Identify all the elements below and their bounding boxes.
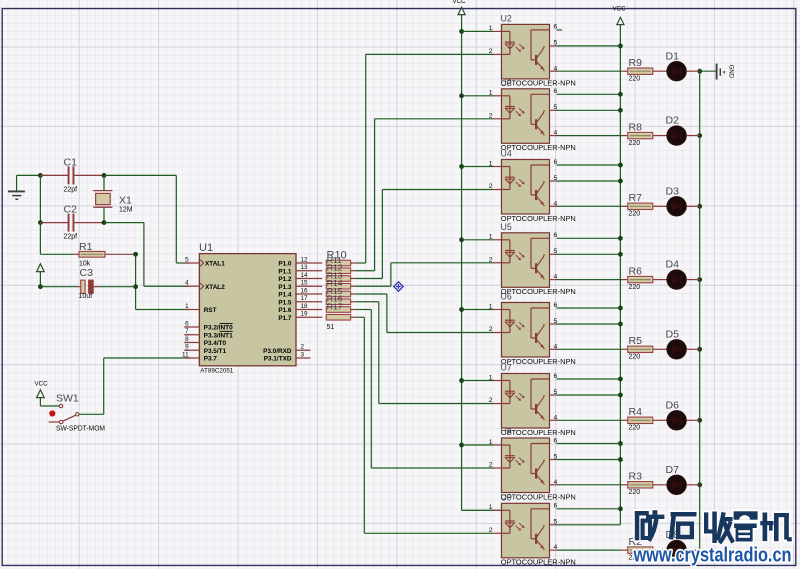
svg-text:1: 1 [185, 303, 189, 310]
svg-text:22pf: 22pf [64, 234, 78, 241]
svg-text:12: 12 [301, 256, 309, 263]
U1 pin 7 P3.3/INT1 [184, 334, 199, 336]
svg-text:17: 17 [301, 295, 309, 302]
U1 pin 16 P1.4 [296, 293, 322, 295]
wire C2 node to XTAL2 [104, 222, 144, 224]
svg-text:220: 220 [629, 354, 641, 361]
cathode rail to GND [699, 71, 701, 550]
svg-text:R4: R4 [629, 406, 643, 418]
watermark logo [635, 510, 792, 543]
svg-text:P3.5/T1: P3.5/T1 [204, 348, 227, 355]
wire R10 row 2 to opto U3 pin2 [351, 270, 357, 272]
svg-text:U8: U8 [501, 427, 512, 437]
U1 pin 8 P3.4/T0 [184, 342, 199, 344]
svg-text:220: 220 [629, 76, 641, 83]
svg-text:P1.2: P1.2 [278, 276, 292, 283]
svg-text:51: 51 [327, 324, 335, 331]
svg-text:P1.0: P1.0 [278, 261, 292, 268]
U1 pin 5 XTAL1 [189, 262, 199, 264]
node XTAL1 net [102, 173, 107, 178]
wire R10 row 8 to opto U9 pin2 [351, 316, 357, 318]
svg-text:19: 19 [301, 311, 309, 318]
svg-text:AT89C2051: AT89C2051 [200, 368, 233, 375]
svg-text:U6: U6 [501, 292, 512, 302]
wire C1 node to XTAL1 [104, 174, 176, 176]
U1 pin 14 P1.2 [296, 278, 322, 280]
svg-text:220: 220 [629, 489, 641, 496]
svg-text:R9: R9 [629, 57, 643, 69]
U1 pin 19 P1.7 [296, 316, 322, 318]
svg-text:XTAL1: XTAL1 [205, 261, 225, 268]
svg-text:C1: C1 [64, 156, 78, 168]
optocoupler U9 (with resistor R2 body and LED D8 body) [462, 503, 700, 567]
optocoupler U2 (with resistor R9 body and LED D1 body) [462, 24, 700, 88]
svg-text:13: 13 [301, 264, 309, 271]
U1 pin 3 P3.1/TXD [296, 357, 311, 359]
svg-text:www.crystalradio.cn: www.crystalradio.cn [633, 545, 792, 567]
svg-text:D1: D1 [666, 50, 680, 62]
svg-text:22pf: 22pf [64, 187, 78, 194]
svg-text:U4: U4 [501, 149, 512, 159]
svg-text:P3.4/T0: P3.4/T0 [204, 340, 227, 347]
R10 element row 4 [326, 283, 350, 289]
wire R10 row 5 to opto U6 pin2 [351, 293, 357, 295]
ground symbol GND (right) [700, 70, 716, 72]
capacitor C1 [40, 174, 68, 176]
optocoupler U6 (with resistor R5 body and LED D5 body) [462, 302, 700, 366]
svg-text:14: 14 [301, 272, 309, 279]
svg-text:9: 9 [185, 344, 189, 351]
svg-text:P3.7: P3.7 [204, 356, 218, 363]
R10 element row 1 [326, 260, 350, 266]
wire R10 row 1 to opto U2 pin2 [351, 262, 357, 264]
svg-text:D4: D4 [666, 259, 680, 271]
svg-text:220: 220 [629, 140, 641, 147]
svg-text:SW1: SW1 [56, 393, 79, 405]
capacitor C3 10uf [38, 284, 43, 289]
svg-text:R5: R5 [629, 335, 643, 347]
svg-text:XTAL2: XTAL2 [205, 284, 225, 291]
U1 pin 2 P3.0/RXD [296, 349, 311, 351]
svg-text:11: 11 [182, 351, 189, 358]
svg-text:R17: R17 [327, 301, 343, 311]
wire gnd to C1 node [17, 174, 41, 176]
svg-text:P1.7: P1.7 [278, 315, 292, 322]
wire U3 pin 6 [557, 93, 621, 95]
optocoupler U8 (with resistor R3 body and LED D7 body) [462, 437, 700, 501]
svg-text:R1: R1 [79, 241, 93, 253]
power arrow at C3 [37, 264, 45, 272]
U1 pin 9 P3.5/T1 [184, 349, 199, 351]
U1 pin 12 P1.0 [296, 262, 322, 264]
wire U8 pin 6 [557, 443, 621, 445]
svg-text:U1: U1 [199, 242, 213, 254]
R10 element row 5 [326, 291, 350, 297]
svg-text:18: 18 [301, 303, 309, 310]
svg-text:220: 220 [629, 425, 641, 432]
optocoupler U7 (with resistor R4 body and LED D6 body) [462, 373, 700, 437]
wire U9 pin 6 [557, 508, 621, 510]
svg-text:R6: R6 [629, 265, 643, 277]
optocoupler U3 (with resistor R8 body and LED D2 body) [462, 88, 700, 152]
svg-text:5: 5 [185, 256, 189, 263]
svg-text:D7: D7 [666, 464, 680, 476]
U1 pin 15 P1.3 [296, 285, 322, 287]
svg-text:D6: D6 [666, 399, 680, 411]
crystal X1 [103, 175, 105, 190]
svg-text:15: 15 [301, 280, 309, 287]
R10 element row 3 [326, 276, 350, 282]
svg-text:U5: U5 [501, 222, 512, 232]
svg-text:P3.2/INT0: P3.2/INT0 [204, 325, 233, 332]
svg-text:3: 3 [301, 351, 305, 358]
svg-text:D3: D3 [666, 185, 680, 197]
svg-text:VCC: VCC [613, 5, 627, 12]
svg-text:P1.5: P1.5 [278, 299, 292, 306]
U1 pin 11 P3.7 [184, 357, 199, 359]
R10 element row 6 [326, 299, 350, 305]
svg-text:C2: C2 [64, 204, 78, 216]
svg-text:P1.4: P1.4 [278, 292, 292, 299]
R10 element row 7 [326, 307, 350, 313]
svg-text:C3: C3 [80, 267, 94, 279]
svg-text:2: 2 [301, 344, 305, 351]
wire U2 pin 6 [557, 29, 563, 31]
capacitor C2 [40, 222, 68, 224]
svg-text:8: 8 [185, 336, 189, 343]
svg-text:4: 4 [185, 280, 189, 287]
svg-text:P1.6: P1.6 [278, 307, 292, 314]
wire R10 row 7 to opto U8 pin2 [351, 309, 357, 311]
svg-text:SW-SPDT-MOM: SW-SPDT-MOM [56, 426, 105, 433]
svg-text:12M: 12M [119, 207, 133, 214]
wire U6 pin 6 [557, 307, 621, 309]
svg-text:VCC: VCC [35, 381, 49, 388]
svg-text:220: 220 [629, 284, 641, 291]
U1 pin 1 RST [189, 309, 199, 311]
wire R10 row 3 to opto U4 pin2 [351, 278, 357, 280]
svg-text:U9: U9 [501, 492, 512, 502]
svg-text:10uf: 10uf [79, 293, 93, 300]
wire R10 row 4 to opto U5 pin2 [351, 285, 357, 287]
resistor R1 10k [73, 253, 79, 255]
svg-text:6: 6 [185, 320, 189, 327]
ground symbol GND (left, near C1) [16, 175, 18, 191]
svg-text:VCC: VCC [453, 0, 467, 5]
optocoupler U5 (with resistor R6 body and LED D4 body) [462, 232, 700, 296]
svg-text:P3.3/INT1: P3.3/INT1 [204, 332, 233, 339]
R10 element row 8 [326, 314, 350, 320]
U1 pin 13 P1.1 [296, 270, 322, 272]
svg-text:R8: R8 [629, 121, 643, 133]
svg-text:X1: X1 [119, 194, 132, 206]
MCU U1 AT89C2051 [199, 254, 296, 366]
wire U4 pin 6 [557, 164, 621, 166]
svg-text:GND: GND [728, 65, 734, 79]
wire R10 row 6 to opto U7 pin2 [351, 301, 357, 303]
svg-text:P3.0/RXD: P3.0/RXD [263, 348, 292, 355]
svg-text:U3: U3 [501, 78, 512, 88]
wire U5 pin 6 [557, 237, 621, 239]
node R1/RST [133, 252, 138, 257]
node at C1 left [38, 173, 43, 178]
U1 pin 17 P1.5 [296, 301, 322, 303]
svg-text:U7: U7 [501, 363, 512, 373]
U1 pin 18 P1.6 [296, 309, 322, 311]
svg-text:P1.3: P1.3 [278, 284, 292, 291]
svg-text:7: 7 [185, 328, 189, 335]
U1 pin 4 XTAL2 [189, 285, 199, 287]
svg-text:U2: U2 [501, 13, 512, 23]
wire U7 pin 6 [557, 378, 621, 380]
U1 pin 6 P3.2/INT0 [184, 326, 199, 328]
svg-text:16: 16 [301, 287, 309, 294]
svg-text:D5: D5 [666, 328, 680, 340]
svg-text:R3: R3 [629, 471, 643, 483]
svg-text:D2: D2 [666, 115, 680, 127]
R10 element row 2 [326, 268, 350, 274]
optocoupler U4 (with resistor R7 body and LED D3 body) [462, 159, 700, 223]
svg-text:220: 220 [629, 211, 641, 218]
svg-text:RST: RST [204, 307, 217, 314]
wire left vertical C1-C2-R1 [39, 175, 41, 222]
svg-text:R7: R7 [629, 192, 643, 204]
svg-text:P1.1: P1.1 [278, 268, 292, 275]
editor cursor marker [394, 282, 403, 291]
svg-text:P3.1/TXD: P3.1/TXD [264, 356, 292, 363]
